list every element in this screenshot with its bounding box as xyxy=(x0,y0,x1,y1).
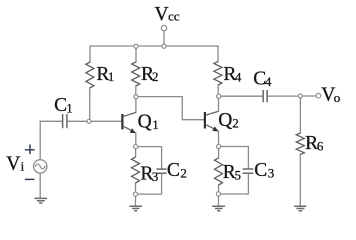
svg-text:Q1: Q1 xyxy=(138,111,159,132)
svg-text:Vo: Vo xyxy=(321,85,340,106)
svg-text:Q2: Q2 xyxy=(218,110,239,131)
svg-text:R2: R2 xyxy=(141,64,159,85)
svg-text:R3: R3 xyxy=(140,164,158,185)
svg-text:R5: R5 xyxy=(223,162,241,183)
svg-text:R1: R1 xyxy=(96,64,114,85)
svg-text:C1: C1 xyxy=(54,95,73,116)
svg-text:C2: C2 xyxy=(167,160,187,181)
svg-text:Vcc: Vcc xyxy=(155,4,180,25)
svg-text:C3: C3 xyxy=(254,160,274,181)
svg-text:C4: C4 xyxy=(253,68,272,89)
svg-text:Vi: Vi xyxy=(6,153,24,174)
svg-text:R4: R4 xyxy=(223,64,242,85)
svg-text:R6: R6 xyxy=(305,133,324,154)
